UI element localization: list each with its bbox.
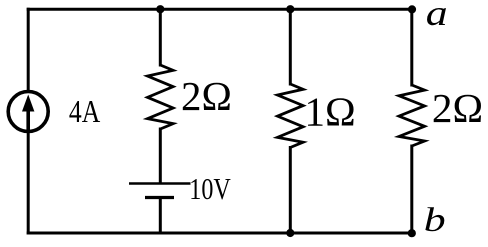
svg-text:1Ω: 1Ω [304,89,355,135]
svg-text:a: a [426,0,448,33]
svg-text:b: b [424,202,446,239]
svg-text:10V: 10V [189,172,231,207]
svg-text:2Ω: 2Ω [432,85,483,131]
svg-text:2Ω: 2Ω [181,73,232,119]
svg-text:4A: 4A [69,94,100,129]
